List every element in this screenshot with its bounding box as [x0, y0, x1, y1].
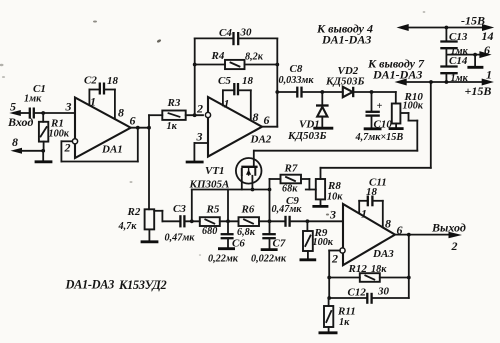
power rail -15V with C13 C14 [316, 14, 494, 47]
capacitor C6 [208, 221, 245, 264]
resistor R7 [270, 163, 316, 195]
svg-text:R3: R3 [167, 97, 181, 109]
svg-text:DA1: DA1 [101, 144, 123, 156]
svg-text:C12: C12 [348, 287, 367, 299]
svg-text:5: 5 [10, 100, 16, 114]
svg-text:1: 1 [361, 207, 367, 221]
svg-text:1: 1 [90, 95, 96, 109]
resistor R2 [118, 128, 181, 232]
svg-text:К153УД2: К153УД2 [118, 278, 166, 292]
svg-text:8,2к: 8,2к [245, 52, 264, 63]
svg-text:C7: C7 [273, 238, 286, 250]
resistor R1 [39, 113, 70, 151]
svg-text:2: 2 [331, 252, 338, 266]
wire input node [34, 111, 75, 115]
capacitor C9 [272, 195, 344, 227]
svg-text:DA1-DA3: DA1-DA3 [65, 278, 115, 292]
svg-text:R11: R11 [337, 306, 356, 318]
diode VD1 [287, 90, 333, 142]
svg-text:4,7к: 4,7к [118, 221, 138, 232]
power rail +15V [367, 57, 494, 99]
diode VD2 [322, 65, 371, 97]
op-amp DA1 [64, 95, 136, 159]
svg-text:Выход: Выход [431, 221, 466, 235]
svg-text:3: 3 [329, 208, 336, 222]
svg-text:R6: R6 [241, 204, 255, 216]
resistor R10 [372, 91, 424, 129]
svg-text:КД503Б: КД503Б [287, 130, 326, 142]
svg-text:8: 8 [118, 106, 124, 120]
svg-text:-15В: -15В [461, 14, 485, 28]
capacitor C8 [277, 63, 322, 98]
output wire and arrow [395, 221, 466, 254]
svg-text:10к: 10к [327, 192, 343, 203]
svg-text:8: 8 [12, 135, 18, 149]
svg-text:+: + [377, 101, 383, 112]
svg-text:0,033мк: 0,033мк [279, 75, 315, 86]
svg-text:100к: 100к [49, 129, 70, 140]
op-amp DA2 [196, 97, 272, 157]
ground R2 [141, 229, 159, 241]
svg-text:6: 6 [264, 113, 270, 127]
svg-text:КД503Б: КД503Б [325, 76, 364, 88]
svg-text:3: 3 [65, 100, 72, 114]
svg-text:2: 2 [64, 141, 71, 155]
svg-text:C2: C2 [84, 75, 97, 87]
svg-text:1: 1 [224, 97, 230, 111]
svg-text:18к: 18к [371, 264, 387, 275]
svg-text:C4: C4 [219, 27, 232, 39]
svg-text:DA1-DA3: DA1-DA3 [321, 33, 371, 47]
svg-text:100к: 100к [313, 237, 334, 248]
svg-text:18: 18 [242, 75, 254, 87]
DA2 pin3 ground [186, 143, 208, 162]
resistor R3 [162, 97, 203, 132]
capacitor C3 [165, 203, 200, 243]
wire R7 node riser [269, 179, 271, 221]
resistor R4 [195, 50, 279, 69]
wire DA2 inverting node rail [193, 38, 197, 115]
caption DA1-DA3 К153УД2 [65, 278, 167, 293]
svg-text:0,022мк: 0,022мк [251, 254, 287, 265]
resistor R9 [300, 221, 334, 259]
svg-text:18: 18 [107, 75, 119, 87]
svg-text:DA3: DA3 [372, 248, 394, 260]
svg-text:6: 6 [484, 43, 490, 57]
svg-text:8: 8 [253, 110, 259, 124]
capacitor C13 [440, 28, 468, 67]
svg-text:4,7мк×15В: 4,7мк×15В [355, 132, 404, 143]
capacitor C11 [359, 177, 387, 228]
svg-text:30: 30 [240, 27, 253, 39]
svg-text:VT1: VT1 [205, 165, 225, 177]
svg-text:1к: 1к [167, 121, 178, 132]
svg-text:6,8к: 6,8к [237, 227, 256, 238]
capacitor C2 [84, 75, 119, 120]
svg-text:C14: C14 [449, 55, 468, 67]
capacitor C10 [355, 90, 404, 143]
svg-text:C13: C13 [449, 31, 468, 43]
wire DA2 output riser [262, 38, 279, 126]
wire DA1 output node [131, 115, 163, 129]
svg-text:C5: C5 [218, 75, 231, 87]
paper specks [0, 11, 425, 256]
input terminal 5 [7, 100, 33, 130]
svg-text:18: 18 [366, 186, 378, 198]
wire VT1 source line [192, 188, 272, 222]
svg-text:1к: 1к [339, 317, 350, 328]
svg-text:R8: R8 [327, 180, 341, 192]
resistor R11 [319, 296, 356, 333]
mid rail to pin 6 with ground [446, 43, 491, 67]
capacitor C4 [195, 27, 278, 46]
svg-text:C6: C6 [232, 238, 245, 250]
svg-text:30: 30 [377, 286, 390, 298]
capacitor C7 [251, 221, 287, 264]
capacitor C1 [24, 83, 46, 119]
svg-text:C3: C3 [173, 203, 186, 215]
op-amp DA3 [329, 204, 403, 266]
svg-text:0,47мк: 0,47мк [165, 232, 196, 243]
svg-text:R5: R5 [206, 204, 220, 216]
resistor R8 [312, 168, 343, 207]
svg-text:1: 1 [486, 68, 492, 82]
svg-text:1мк: 1мк [24, 94, 42, 105]
capacitor C12 [329, 235, 409, 304]
resistor R5 [200, 204, 239, 237]
svg-text:VD1: VD1 [299, 119, 320, 131]
svg-text:2: 2 [451, 239, 458, 253]
svg-text:100к: 100к [403, 101, 424, 112]
svg-text:680: 680 [202, 226, 217, 237]
capacitor C5 [218, 75, 254, 120]
DA1 pin2 circle and feedback loop wire [61, 128, 137, 162]
svg-text:R7: R7 [284, 163, 298, 175]
svg-text:DA2: DA2 [250, 134, 272, 146]
svg-text:+15В: +15В [465, 84, 492, 98]
wire R10 tap to VT1 drain (AGC line) [254, 113, 417, 167]
svg-text:3: 3 [196, 130, 203, 144]
DA3 pin2 loop wire [327, 251, 340, 299]
svg-text:R12: R12 [348, 263, 368, 275]
svg-text:C8: C8 [290, 63, 303, 75]
svg-text:14: 14 [482, 29, 494, 43]
svg-text:R2: R2 [127, 206, 141, 218]
svg-text:6: 6 [130, 114, 136, 128]
svg-text:0,47мк: 0,47мк [272, 204, 303, 215]
terminal 8 arrow [11, 135, 46, 154]
resistor R6 [237, 204, 286, 238]
svg-text:8: 8 [385, 217, 391, 231]
svg-text:68к: 68к [282, 184, 298, 195]
transistor VT1 [189, 158, 262, 191]
resistor R12 [329, 263, 410, 282]
capacitor C14 [440, 55, 468, 84]
svg-text:R4: R4 [211, 50, 225, 62]
svg-text:DA1-DA3: DA1-DA3 [372, 68, 422, 82]
svg-text:2: 2 [196, 102, 203, 116]
wire +15V to R8 (line B) [321, 82, 431, 168]
svg-text:0,22мк: 0,22мк [208, 254, 239, 265]
ground R1 [35, 151, 53, 162]
